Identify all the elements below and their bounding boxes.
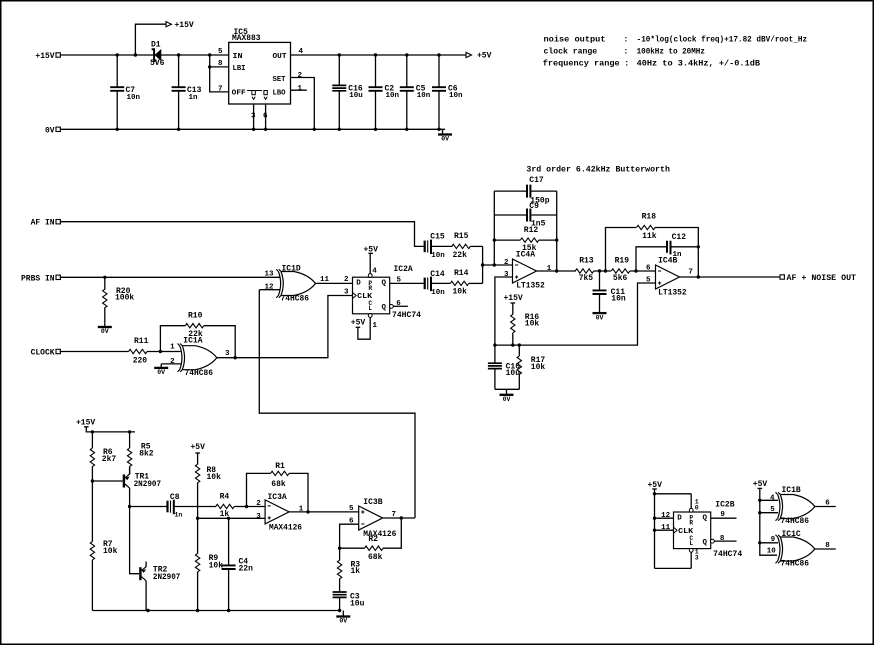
node +15V supply bottom <box>76 419 135 432</box>
svg-text:10n: 10n <box>386 92 400 100</box>
svg-text:D: D <box>356 280 361 288</box>
svg-text:1n: 1n <box>175 512 183 519</box>
capacitor C14 <box>425 270 451 297</box>
wire IC1C output stub <box>815 548 836 550</box>
svg-text:7: 7 <box>218 86 223 94</box>
wire IC3B output up to noise line <box>383 517 415 519</box>
op-amp U IC4A LT1352 <box>513 251 545 291</box>
wire IC4A output <box>537 270 576 272</box>
capacitor C3 10u <box>333 592 365 611</box>
wire IC1D output to IC2A D <box>316 282 353 284</box>
svg-text:IC1A: IC1A <box>183 336 202 345</box>
junction <box>598 269 601 272</box>
wire IC1B output stub <box>815 506 836 508</box>
junction <box>405 53 408 56</box>
svg-text:2N2907: 2N2907 <box>153 573 181 582</box>
resistor R9 10k <box>195 518 223 610</box>
svg-text:7: 7 <box>688 269 693 277</box>
node 0V input terminal <box>45 126 60 135</box>
wire +15V rail <box>60 54 229 56</box>
svg-text:R1: R1 <box>275 462 285 471</box>
junction <box>338 128 341 131</box>
junction <box>758 499 761 502</box>
ground C11 <box>593 309 607 322</box>
svg-text:+5V: +5V <box>351 319 366 328</box>
junction <box>128 430 131 433</box>
svg-text:1n: 1n <box>189 94 199 102</box>
svg-text:Q: Q <box>381 280 386 288</box>
svg-text:10u: 10u <box>349 92 363 100</box>
svg-text:220: 220 <box>133 356 148 365</box>
svg-text:8k2: 8k2 <box>139 450 154 459</box>
node CLOCK terminal <box>31 349 61 358</box>
svg-text:PRBS IN: PRBS IN <box>21 274 55 283</box>
junction <box>481 263 484 266</box>
op-amp U IC2A 74HC74 flip-flop <box>353 265 422 320</box>
ground IC1A pin2 <box>154 364 168 376</box>
svg-text:AF IN: AF IN <box>31 219 55 228</box>
svg-text:+15V: +15V <box>35 52 54 61</box>
svg-text:11k: 11k <box>642 232 657 241</box>
svg-text:0V: 0V <box>157 369 165 376</box>
svg-text:3rd order 6.42kHz Butterworth: 3rd order 6.42kHz Butterworth <box>526 165 670 175</box>
svg-text:8: 8 <box>218 60 223 68</box>
diode D1 5V6 zener <box>150 41 165 69</box>
resistor R2 68k feedback <box>340 518 402 562</box>
svg-text:R15: R15 <box>454 232 469 241</box>
junction <box>555 269 558 272</box>
wire 0V rail <box>60 128 445 130</box>
junction <box>493 238 496 241</box>
svg-text:10k: 10k <box>453 288 468 297</box>
resistor R8 10k <box>195 464 221 518</box>
resistor R10 22k feedback <box>160 312 235 358</box>
op-amp U IC5 MAX883 regulator box <box>229 28 291 104</box>
wire TR1 collector to TR2 base <box>130 507 140 574</box>
wire feedback right bus <box>556 191 558 271</box>
svg-text:AF + NOISE OUT: AF + NOISE OUT <box>787 274 857 283</box>
node info text block <box>543 35 807 69</box>
ground top rail <box>438 129 452 142</box>
svg-text:10n: 10n <box>417 92 431 100</box>
junction <box>196 517 199 520</box>
svg-text:5: 5 <box>770 506 775 514</box>
wire LBO stub <box>291 89 307 91</box>
svg-text:C8: C8 <box>170 493 180 502</box>
svg-text:C17: C17 <box>529 176 544 185</box>
resistor R16 10k <box>511 313 540 345</box>
xor gate IC1D 74HC86 <box>276 265 315 304</box>
wire C10 R17 bottoms <box>495 388 519 390</box>
wire bottom 0V rail <box>92 610 339 612</box>
wire R8 R9 node to IC3A pin3 <box>198 517 266 519</box>
junction <box>227 609 230 612</box>
junction <box>208 65 211 68</box>
wire to IC4A pin2 <box>483 264 513 266</box>
svg-text:100k: 100k <box>115 294 134 303</box>
capacitor C9 1n5 <box>494 202 556 228</box>
svg-text:3: 3 <box>256 513 261 521</box>
op-amp U IC2B 74HC74 flip-flop <box>674 501 743 560</box>
junction <box>604 269 607 272</box>
junction <box>338 609 341 612</box>
resistor R19 5k6 <box>611 256 655 283</box>
node AF + NOISE OUT terminal <box>780 274 856 283</box>
svg-text:0V: 0V <box>441 136 449 143</box>
svg-text:MAX883: MAX883 <box>232 34 261 43</box>
capacitor C16 <box>332 55 363 129</box>
junction <box>697 275 700 278</box>
resistor R18 11k feedback <box>606 213 699 277</box>
junction <box>511 343 514 346</box>
wire IC4B output to AF+NOISE OUT <box>680 276 781 278</box>
junction <box>758 511 761 514</box>
svg-text:10n: 10n <box>431 252 445 260</box>
svg-text:Q: Q <box>381 304 386 312</box>
node PRBS IN terminal <box>21 274 60 283</box>
junction <box>306 510 309 513</box>
wire branch to +15V arrow <box>135 24 166 55</box>
op-amp U IC3A MAX4126 <box>265 493 302 533</box>
junction <box>400 516 403 519</box>
junction <box>116 53 119 56</box>
transistor TR2 2N2907 <box>140 562 180 611</box>
svg-text:frequency range: frequency range <box>543 58 620 68</box>
svg-text:22n: 22n <box>239 565 254 574</box>
svg-text:10k: 10k <box>207 473 222 482</box>
node +5V for IC2B <box>648 481 692 569</box>
svg-text:IC1C: IC1C <box>782 530 801 539</box>
svg-text:R14: R14 <box>454 269 469 278</box>
svg-text:SET: SET <box>273 76 286 84</box>
svg-text:R18: R18 <box>642 213 657 222</box>
svg-text:R13: R13 <box>579 256 594 265</box>
wire IC5 pin6 to 0V <box>265 104 267 129</box>
wire IC2A Q to C14 <box>390 282 425 284</box>
resistor R7 10k <box>90 481 117 611</box>
junction <box>103 276 106 279</box>
svg-text:7k5: 7k5 <box>579 274 594 283</box>
wire SET to 0V <box>291 78 315 130</box>
junction <box>146 609 149 612</box>
svg-text:10n: 10n <box>611 295 626 304</box>
resistor R11 220 <box>129 337 181 366</box>
junction <box>493 343 496 346</box>
svg-text:IC4B: IC4B <box>658 256 677 265</box>
junction <box>758 541 761 544</box>
svg-text:clock range: clock range <box>544 47 598 57</box>
wire +5V output rail <box>291 54 467 56</box>
svg-text:C12: C12 <box>672 233 687 242</box>
svg-text:10k: 10k <box>103 547 118 556</box>
svg-text:IC2B: IC2B <box>715 501 734 510</box>
svg-text:R11: R11 <box>134 337 149 346</box>
svg-text:2: 2 <box>504 259 509 267</box>
svg-text:5: 5 <box>218 48 223 56</box>
svg-text:5: 5 <box>646 277 651 285</box>
capacitor C7 <box>110 55 140 129</box>
svg-text:1k: 1k <box>351 567 361 576</box>
svg-text:IC2A: IC2A <box>394 265 413 274</box>
node +15V for R16 <box>504 294 523 314</box>
junction <box>653 529 656 532</box>
svg-text:IC1D: IC1D <box>282 265 301 274</box>
junction <box>159 350 162 353</box>
svg-text:68k: 68k <box>271 480 286 489</box>
svg-text:0V: 0V <box>101 328 109 335</box>
svg-text:10n: 10n <box>127 94 141 102</box>
svg-text:74HC74: 74HC74 <box>392 311 421 320</box>
svg-text:noise output: noise output <box>544 35 606 45</box>
wire IC2B Q stub <box>711 517 737 519</box>
capacitor C13 <box>172 55 202 129</box>
svg-text:6: 6 <box>396 300 401 308</box>
svg-text:Q: Q <box>702 514 707 522</box>
svg-text:3: 3 <box>695 555 699 562</box>
svg-text:D: D <box>677 514 682 522</box>
svg-text:74HC86: 74HC86 <box>781 517 810 526</box>
svg-text:R2: R2 <box>368 535 378 544</box>
svg-text:0V: 0V <box>45 126 55 135</box>
capacitor C17 150p <box>494 176 556 205</box>
svg-text:+15V: +15V <box>175 21 194 30</box>
ground bottom rail <box>336 611 350 625</box>
capacitor C15 <box>425 233 453 260</box>
capacitor C5 <box>400 55 431 129</box>
junction <box>177 128 180 131</box>
svg-text:LT1352: LT1352 <box>658 288 687 297</box>
node +5V for R8 <box>191 443 206 464</box>
svg-text:0V: 0V <box>503 396 511 403</box>
svg-text:IC4A: IC4A <box>516 251 535 260</box>
svg-text:12: 12 <box>661 512 671 520</box>
resistor R13 7k5 <box>575 256 611 283</box>
capacitor C6 <box>432 55 463 129</box>
svg-text:1: 1 <box>298 85 303 93</box>
junction <box>437 53 440 56</box>
svg-text:1: 1 <box>373 322 378 330</box>
svg-text:OUT: OUT <box>273 53 288 61</box>
svg-text:10: 10 <box>767 548 777 556</box>
svg-text:40Hz to 3.4kHz, +/-0.1dB: 40Hz to 3.4kHz, +/-0.1dB <box>637 58 760 68</box>
svg-text:IC1B: IC1B <box>782 486 801 495</box>
svg-text:0V: 0V <box>596 314 604 321</box>
svg-text:L: L <box>689 540 693 547</box>
wire TR1 base <box>92 480 122 482</box>
node +5V arrow terminal <box>466 52 492 61</box>
svg-text:MAX4126: MAX4126 <box>269 524 302 533</box>
wire IC2B Qbar stub <box>714 540 736 542</box>
svg-text:2k7: 2k7 <box>102 455 117 464</box>
svg-text:+5V: +5V <box>191 443 206 452</box>
resistor R15 <box>452 232 483 260</box>
svg-text:10n: 10n <box>449 92 463 100</box>
svg-text:10n: 10n <box>431 289 445 297</box>
resistor R6 2k7 <box>90 432 116 481</box>
svg-text:74HC86: 74HC86 <box>781 560 810 569</box>
svg-text:100kHz to 20MHz: 100kHz to 20MHz <box>637 47 705 57</box>
svg-text:2: 2 <box>298 72 303 80</box>
wire IC5 input bus <box>210 55 229 92</box>
svg-text:5k6: 5k6 <box>613 274 628 283</box>
junction <box>116 128 119 131</box>
junction <box>177 53 180 56</box>
wire R15/R14 join <box>482 246 484 283</box>
junction <box>234 356 237 359</box>
ground R20 <box>98 323 112 336</box>
svg-text:R12: R12 <box>524 226 539 235</box>
junction <box>518 343 521 346</box>
svg-text:11: 11 <box>661 524 671 532</box>
svg-text:9: 9 <box>771 536 776 544</box>
svg-text:D1: D1 <box>151 41 161 50</box>
svg-text:2: 2 <box>170 358 175 366</box>
xor gate IC1B 74HC86 <box>776 486 815 526</box>
svg-text:R10: R10 <box>188 312 203 321</box>
svg-text:74HC86: 74HC86 <box>281 295 310 304</box>
svg-text:LT1352: LT1352 <box>516 282 545 291</box>
svg-text::: : <box>624 59 629 68</box>
svg-text:10k: 10k <box>531 363 546 372</box>
capacitor C4 22n <box>222 518 254 610</box>
wire IC2A Qbar stub <box>393 305 408 307</box>
wire AF IN to C15 <box>60 222 425 247</box>
junction <box>245 505 248 508</box>
svg-text:R: R <box>368 285 372 292</box>
junction <box>338 53 341 56</box>
svg-text:4: 4 <box>770 495 775 503</box>
svg-text:0: 0 <box>695 505 699 512</box>
svg-text:R4: R4 <box>220 493 230 502</box>
junction <box>405 128 408 131</box>
svg-text:2N2907: 2N2907 <box>134 480 162 489</box>
capacitor C11 10n <box>593 271 626 309</box>
svg-text:10k: 10k <box>209 561 224 570</box>
junction <box>227 517 230 520</box>
wire feedback left bus <box>493 191 495 265</box>
node title 3rd order butterworth <box>526 165 670 175</box>
junction <box>437 128 440 131</box>
node +5V for IC1B IC1C <box>753 480 778 555</box>
junction <box>134 53 137 56</box>
svg-text:10k: 10k <box>525 319 540 328</box>
op-amp U IC3B MAX4126 <box>359 498 397 539</box>
ground C10 R17 <box>500 389 514 403</box>
svg-text:3: 3 <box>225 350 230 358</box>
svg-text::: : <box>623 48 628 57</box>
node +15V arrow terminal <box>166 21 194 30</box>
op-amp U IC4B LT1352 <box>656 256 687 297</box>
svg-text:+5V: +5V <box>477 52 492 61</box>
node +5V for IC2A clear <box>351 318 370 340</box>
svg-text:10u: 10u <box>350 600 365 609</box>
svg-text:+15V: +15V <box>504 294 523 303</box>
svg-text:1: 1 <box>170 344 175 352</box>
xor gate IC1C 74HC86 <box>776 530 815 569</box>
wire bias node row <box>495 283 656 345</box>
junction <box>634 269 637 272</box>
resistor R14 10k <box>450 269 482 297</box>
resistor R1 68k feedback <box>247 462 309 512</box>
svg-text:L: L <box>368 305 372 312</box>
capacitor C2 <box>369 55 400 129</box>
transistor TR1 2N2907 <box>124 467 161 507</box>
junction <box>91 430 94 433</box>
junction <box>697 245 700 248</box>
svg-text:CLOCK: CLOCK <box>31 349 55 358</box>
svg-text:C14: C14 <box>430 270 445 279</box>
resistor R3 1k <box>337 548 360 591</box>
svg-text:R19: R19 <box>615 256 630 265</box>
junction <box>91 479 94 482</box>
svg-text:R: R <box>689 520 693 527</box>
svg-text:IC3A: IC3A <box>268 493 287 502</box>
svg-text:LBI: LBI <box>233 65 246 73</box>
wire IC1D pin12 from noise line <box>259 289 279 291</box>
svg-text:74HC74: 74HC74 <box>713 550 742 559</box>
svg-text:0V: 0V <box>339 618 347 625</box>
wire CLOCK to R11 <box>60 351 129 353</box>
wire IC1A pin2 to ground <box>161 363 181 365</box>
wire IC3A out to IC3B pin5 <box>289 511 359 513</box>
svg-text::: : <box>623 36 628 45</box>
wire IC1A output to IC2A CLK <box>217 296 353 358</box>
capacitor C10 10u <box>488 345 520 389</box>
junction <box>338 547 341 550</box>
svg-text:5V6: 5V6 <box>150 59 165 68</box>
node AF IN terminal <box>31 219 61 228</box>
svg-text:OFF: OFF <box>232 90 247 98</box>
junction <box>555 238 558 241</box>
wire IC3B pin6 <box>340 524 359 548</box>
junction <box>196 609 199 612</box>
svg-text:4: 4 <box>372 268 377 276</box>
junction <box>374 128 377 131</box>
capacitor C12 1n feedback <box>636 233 698 271</box>
svg-text:22k: 22k <box>453 251 468 260</box>
svg-text:C15: C15 <box>430 233 445 242</box>
junction <box>128 505 131 508</box>
junction <box>313 128 316 131</box>
wire IC5 pin3 to 0V <box>253 104 255 129</box>
junction <box>493 263 496 266</box>
node +15V input terminal <box>35 52 60 61</box>
junction <box>374 53 377 56</box>
junction <box>653 517 656 520</box>
resistor R5 8k2 <box>127 432 153 474</box>
wire IC4A pin3 <box>495 277 513 345</box>
svg-text:74HC86: 74HC86 <box>185 369 214 378</box>
junction <box>252 128 255 131</box>
svg-text:5: 5 <box>349 505 354 513</box>
svg-text:LBO: LBO <box>273 90 286 98</box>
junction <box>653 492 656 495</box>
svg-text:13: 13 <box>264 271 274 279</box>
svg-text:-10*log(clock freq)+17.82 dBV: -10*log(clock freq)+17.82 dBV/root_Hz <box>637 35 808 45</box>
resistor R17 10k <box>517 345 545 389</box>
xor gate IC1A 74HC86 <box>178 336 217 377</box>
svg-text:C9: C9 <box>529 202 539 211</box>
node +5V for IC2A preset <box>363 245 378 273</box>
resistor R20 100k <box>103 277 135 322</box>
svg-text:IC3B: IC3B <box>363 498 382 507</box>
capacitor C8 <box>130 493 216 519</box>
svg-text:2: 2 <box>256 500 261 508</box>
svg-text:1k: 1k <box>220 510 230 519</box>
junction <box>208 53 211 56</box>
resistor R4 1k <box>216 493 265 520</box>
svg-text:Q: Q <box>702 539 707 547</box>
